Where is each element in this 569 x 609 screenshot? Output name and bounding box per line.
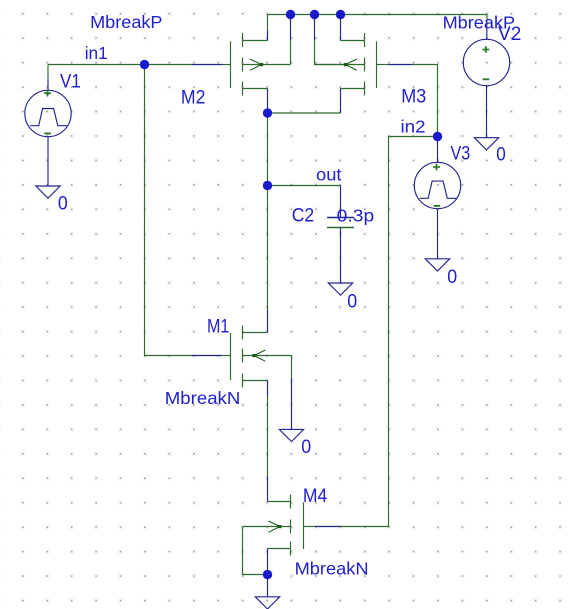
voltage source V2 (VDC) — [463, 39, 509, 85]
wire in2 node to M4 gate — [340, 137, 437, 527]
wire V2 bottom pin — [486, 86, 488, 138]
svg-text:M3: M3 — [401, 86, 426, 108]
node in1 junction dot — [140, 60, 149, 69]
M1 source stub — [243, 380, 268, 382]
wire M2 source down to node — [267, 89, 269, 114]
wire node down to bottom ground — [267, 575, 269, 598]
svg-text:in1: in1 — [85, 43, 108, 63]
M1 drain stub — [243, 332, 268, 334]
transistor M1 MbreakN — [231, 326, 292, 388]
wire rail to M3 drain — [340, 15, 342, 41]
M4 source stub — [268, 548, 291, 550]
svg-text:0: 0 — [496, 143, 506, 165]
wire rail to V2 — [486, 15, 488, 21]
M2 source stub — [243, 88, 268, 90]
M4 drain stub — [268, 501, 291, 503]
M4 channel segments — [290, 495, 292, 556]
svg-text:MbreakP: MbreakP — [90, 12, 162, 32]
M1 bulk lead — [243, 355, 292, 357]
M4 bulk lead — [243, 526, 291, 528]
svg-text:in2: in2 — [401, 117, 426, 137]
capacitor C2 — [327, 217, 354, 219]
node junction dot out — [263, 181, 272, 190]
wire out to C2 — [268, 185, 341, 187]
M4 gate bar — [303, 502, 305, 549]
svg-text:M1: M1 — [207, 315, 229, 337]
M3 gate bar — [376, 41, 378, 88]
ground below M1 — [279, 429, 303, 441]
ground below C2 — [328, 283, 352, 295]
svg-text:MbreakN: MbreakN — [295, 558, 369, 578]
M2 bulk lead — [243, 64, 291, 66]
ground bottom — [255, 597, 279, 609]
svg-text:0: 0 — [58, 192, 68, 214]
node junction dot sources — [263, 108, 272, 117]
svg-text:0: 0 — [301, 436, 311, 458]
M1 bulk arrow — [254, 350, 266, 361]
node junction dot rail-2 — [310, 10, 319, 19]
wire node row between sources — [268, 112, 341, 114]
M3 bulk arrow — [345, 59, 357, 70]
node junction dot in2 — [433, 132, 442, 141]
M2 gate bar — [230, 41, 232, 88]
wire in1 from V1 to M2 gate — [48, 64, 192, 66]
wire in1 down to M1 gate — [145, 65, 193, 356]
wire rail to M2 bulk — [290, 15, 292, 40]
svg-text:M4: M4 — [303, 485, 328, 507]
M3 gate lead — [377, 64, 389, 66]
wire V1 top pin — [47, 65, 49, 80]
ground below V1 — [36, 186, 60, 198]
wire V3 bottom pin — [437, 209, 439, 259]
node junction dot rail-3 — [336, 10, 345, 19]
M3 channel segments — [364, 33, 366, 96]
svg-text:0.3p: 0.3p — [337, 206, 375, 226]
wire C2 bottom to ground — [340, 228, 342, 284]
node junction dot rail-1 — [286, 10, 295, 19]
M2 drain stub — [243, 40, 268, 42]
M1 channel segments — [242, 326, 244, 388]
svg-text:out: out — [316, 165, 342, 185]
wire V1 bottom pin — [47, 137, 49, 186]
wire rail to M3 bulk — [314, 15, 316, 40]
wire riser rail to M2 drain — [267, 15, 269, 31]
svg-text:V2: V2 — [498, 23, 521, 45]
ground below V3 — [425, 259, 449, 271]
wire M3 gate to in2 — [413, 65, 438, 137]
M1 gate bar — [230, 333, 232, 380]
svg-text:C2: C2 — [292, 205, 315, 227]
wire M4 source down to node — [267, 549, 269, 575]
node junction dot M4 source — [263, 570, 272, 579]
ground below V2 — [474, 138, 498, 150]
wire top rail — [268, 14, 488, 16]
wire out down to M1 drain — [267, 186, 269, 311]
svg-text:MbreakN: MbreakN — [165, 388, 241, 408]
voltage source V3 (VPULSE) — [414, 162, 460, 208]
transistor M4 MbreakN mirrored — [243, 495, 341, 556]
M4 bulk arrow — [268, 521, 280, 532]
M3 drain stub — [341, 40, 365, 42]
wire M3 source down to node row — [340, 89, 342, 114]
svg-text:V3: V3 — [451, 143, 471, 165]
wire node down to out — [267, 113, 269, 186]
svg-text:V1: V1 — [60, 71, 81, 93]
voltage source V1 (VPULSE) — [25, 90, 71, 137]
M3 source stub — [341, 88, 365, 90]
svg-text:0: 0 — [347, 290, 357, 312]
wire M1 bulk down to ground — [291, 356, 293, 379]
M4 gate lead — [304, 526, 316, 528]
wire in2 down to V3 — [437, 137, 439, 163]
M2 bulk arrow — [250, 59, 262, 70]
svg-text:M2: M2 — [181, 86, 206, 108]
transistor M3 MbreakP mirrored — [315, 33, 413, 96]
transistor M2 MbreakP — [231, 33, 291, 96]
wire M1 source down to M4 drain — [267, 381, 269, 397]
svg-text:0: 0 — [447, 266, 457, 288]
M2 channel segments — [242, 33, 244, 96]
wire M4 bulk down to node — [243, 527, 268, 575]
M3 bulk lead — [315, 64, 365, 66]
